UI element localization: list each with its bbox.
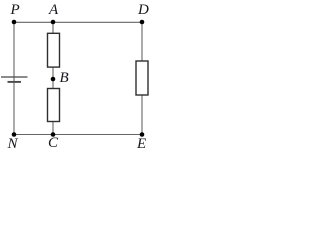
node E — [140, 132, 145, 137]
label C — [48, 136, 58, 151]
node P — [12, 20, 17, 25]
label D — [138, 3, 149, 18]
node N — [12, 132, 17, 137]
node D — [140, 20, 145, 25]
resistor R3 (between D and E) — [136, 61, 148, 95]
wire left P-N through battery — [13, 22, 15, 135]
label A — [49, 3, 58, 18]
node B — [51, 77, 56, 82]
wire middle A-B-C — [52, 22, 54, 135]
resistor R2 (between B and C) — [48, 89, 60, 122]
label P — [11, 3, 20, 18]
wire top P-A-D — [14, 21, 142, 23]
wire bottom N-C-E — [14, 134, 142, 136]
resistor R1 (between A and B) — [48, 33, 60, 67]
label E — [137, 137, 146, 152]
label B — [60, 71, 69, 86]
node C — [51, 132, 56, 137]
label N — [8, 137, 18, 152]
node A — [51, 20, 56, 25]
battery cell — [1, 77, 28, 82]
wire right D-E — [141, 22, 143, 135]
